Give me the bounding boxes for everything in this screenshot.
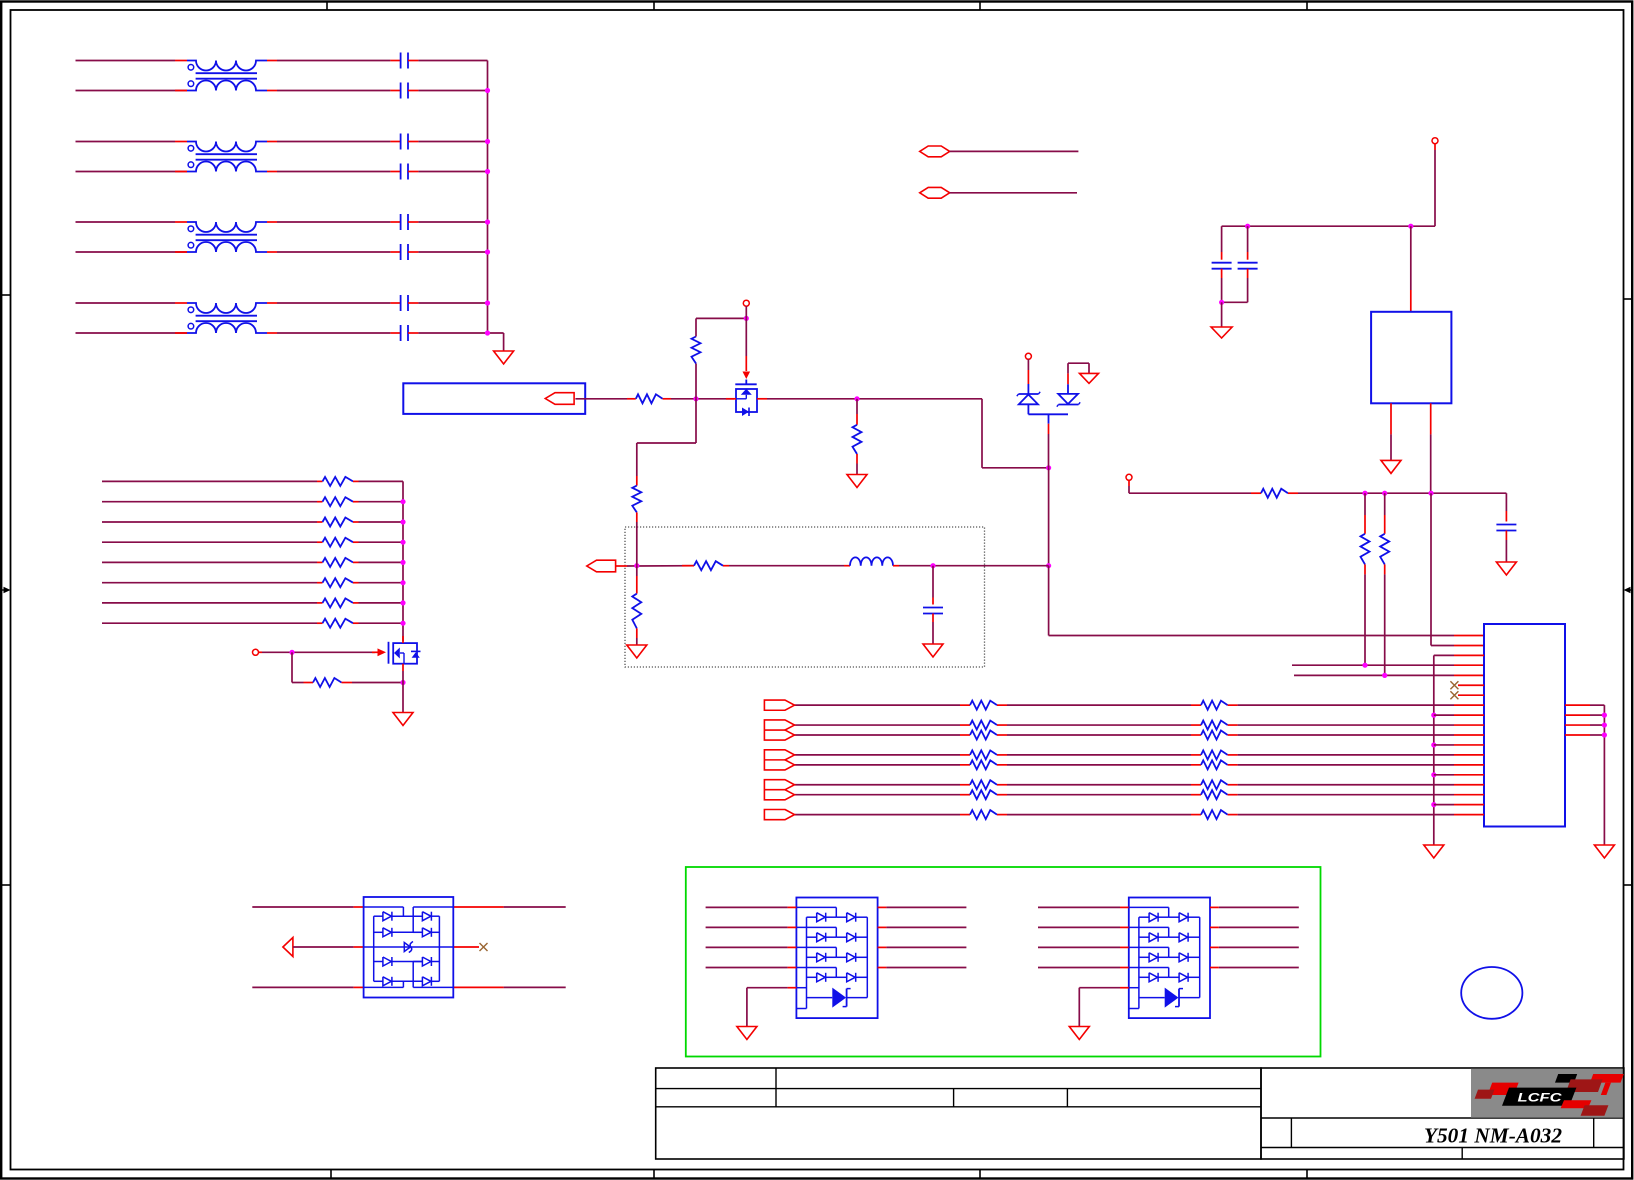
- svg-text:LCFC: LCFC: [1518, 1090, 1562, 1104]
- U5 output wire 2: [878, 926, 887, 928]
- common-mode choke L1: [187, 61, 267, 71]
- ground for D2: [1080, 373, 1099, 383]
- title block right divider c: [1461, 1148, 1463, 1160]
- resistor R16 row 7: [317, 602, 323, 604]
- wire net top of L4: [76, 302, 176, 304]
- connector arrow filter input: [587, 560, 616, 572]
- wire row 3 to U1: [1238, 734, 1454, 736]
- resistor Rb row 7: [1191, 794, 1201, 796]
- wire signal row 2: [795, 724, 961, 726]
- ESD diode array U5: [796, 898, 877, 1019]
- ground fb cap: [1496, 562, 1516, 575]
- common-mode choke L4: [187, 303, 267, 313]
- wire signal row 3: [795, 734, 961, 736]
- wire gate pin to MOSFET: [259, 651, 263, 653]
- ground U6: [1069, 1027, 1089, 1040]
- wire arrow to filter node: [616, 565, 627, 567]
- wire stub net pin4: [1292, 664, 1454, 666]
- wire cap to bus (bottom L4): [418, 332, 487, 334]
- resistor Ra row 7: [960, 794, 970, 796]
- U4 diode pair row c: [374, 961, 383, 963]
- resistor R14 row 5: [317, 561, 323, 563]
- wire row 5 to U1: [1238, 764, 1454, 766]
- resistor R12 row 3: [317, 521, 323, 523]
- ESD diode array U6: [1129, 898, 1210, 1019]
- border zone tick marks right: [1624, 298, 1632, 300]
- resistor R filter series: [682, 565, 694, 567]
- wire stub net pin5: [1294, 674, 1454, 676]
- capacitor C fb: [1505, 493, 1507, 511]
- resistor Ra row 2: [960, 724, 970, 726]
- capacitor C bypass1: [1221, 226, 1223, 252]
- wire row 2 mid: [1007, 724, 1191, 726]
- logo shape red right mid: [1601, 1083, 1611, 1095]
- resistor Rb row 4: [1191, 754, 1201, 756]
- pin circle diode node: [1025, 353, 1031, 359]
- U5 diode pair 2: [796, 926, 836, 928]
- wire net bottom of L3: [76, 251, 188, 253]
- ground filter cap: [923, 644, 943, 657]
- title block right row line 1: [1261, 1117, 1624, 1119]
- U5 input wire 1: [706, 906, 788, 908]
- wire row 7 to U1: [1238, 794, 1454, 796]
- U5 diode pair 3: [796, 946, 836, 948]
- wire resistor to inductor: [729, 565, 844, 567]
- resistor R divider top: [636, 476, 638, 486]
- wire row 8 mid: [1007, 814, 1191, 816]
- U6 left rail: [1138, 917, 1140, 1008]
- ground U3: [1381, 460, 1401, 473]
- logo shape red topright: [1590, 1074, 1624, 1083]
- resistor R10 row 1: [317, 480, 323, 482]
- wire ladder row 5: [102, 561, 317, 563]
- connector arrow row8: [764, 810, 794, 820]
- wire row 3 mid: [1007, 734, 1191, 736]
- resistor Ra row 8: [960, 814, 970, 816]
- vertical bus joining choke capacitors: [487, 61, 489, 334]
- ground divider: [627, 645, 647, 658]
- wire supply to U3: [1410, 226, 1412, 290]
- title block right divider b: [1593, 1118, 1595, 1148]
- logo shape darkred left: [1475, 1090, 1495, 1099]
- wire row 6 to U1: [1238, 784, 1454, 786]
- title block left divider c: [1066, 1089, 1068, 1107]
- resistor R fb series: [1251, 492, 1261, 494]
- wire U4 out mid no-connect: [453, 946, 479, 948]
- ground U5: [737, 1027, 757, 1040]
- wire U1 right pin top: [1565, 704, 1590, 706]
- U6 input wire 4: [1038, 967, 1120, 969]
- dotted function outline box: [625, 527, 985, 667]
- wire filter node down to R divider bottom: [636, 566, 638, 576]
- U6 output wire 3: [1210, 946, 1219, 948]
- wire row 4 mid: [1007, 754, 1191, 756]
- resistor Ra row 5: [960, 764, 970, 766]
- transistor Q1 nmos: [393, 643, 417, 664]
- wire cap to bus (top L4): [418, 302, 487, 304]
- wire cap to bus (top L1): [418, 60, 487, 62]
- IC U1 box: [1484, 624, 1565, 827]
- title block left row line 2: [656, 1106, 1261, 1108]
- capacitor CL2b: [390, 171, 400, 173]
- wire ladder row 1: [102, 480, 317, 482]
- U6 output wire 4: [1210, 967, 1219, 969]
- resistor R load to ground: [856, 399, 858, 414]
- U5 input wire 4: [706, 967, 788, 969]
- wire row 6 mid: [1007, 784, 1191, 786]
- wire signal row 4: [795, 754, 961, 756]
- gate arrowhead into Q1: [372, 651, 378, 653]
- ellipse marker: [1461, 967, 1522, 1019]
- border zone tick marks left: [1, 294, 10, 296]
- common-mode choke L2: [187, 142, 267, 152]
- wire output elbow down: [981, 399, 983, 468]
- wire pin to supply node: [745, 306, 747, 318]
- wire Q1 drain stub: [402, 636, 404, 643]
- wire U2 to series resistor: [575, 398, 627, 400]
- wire net top of L2: [76, 141, 176, 143]
- resistor Ra row 3: [960, 734, 970, 736]
- ground U1 bus: [1424, 845, 1444, 858]
- logo shape darkred bottom: [1581, 1105, 1609, 1116]
- wire caps common to ground: [1222, 301, 1248, 303]
- wire row 2 to U1: [1238, 724, 1454, 726]
- wire cap to bus (top L2): [418, 141, 487, 143]
- capacitor C bypass2: [1247, 226, 1249, 252]
- resistor Ra row 1: [960, 704, 970, 706]
- wire signal row 7: [795, 794, 961, 796]
- wire D2 anode to ground elbow: [1067, 373, 1069, 384]
- ladder bus vertical: [402, 481, 404, 641]
- U5 diode pair 4: [796, 967, 836, 969]
- U1 no-connect pin7: [1458, 694, 1484, 696]
- wire from L3 bottom to capacitor: [267, 251, 277, 253]
- wire cap to bus (bottom L3): [418, 251, 487, 253]
- wire gate node up to pullup resistor: [695, 364, 697, 399]
- wire row 4 to U1: [1238, 754, 1454, 756]
- inductor L filter: [844, 565, 850, 567]
- resistor Rb row 5: [1191, 764, 1201, 766]
- ground for Q1 source: [393, 713, 413, 726]
- wire U1 gnd pin 3: [1431, 802, 1436, 807]
- wire from L4 bottom to capacitor: [267, 332, 277, 334]
- wire ladder row 2: [102, 501, 317, 503]
- capacitor CL1b: [390, 90, 400, 92]
- wire Q2 drain out: [757, 398, 767, 400]
- wire from L1 top to capacitor: [267, 60, 277, 62]
- U6 ground wire: [1129, 987, 1139, 989]
- connector arrow inside U2: [545, 393, 574, 405]
- junction dots ladder bus: [400, 499, 405, 504]
- U4 zener center: [404, 943, 410, 952]
- logo shape darkred right: [1566, 1079, 1603, 1092]
- resistor R series gate: [627, 398, 636, 400]
- resistor R13 row 4: [317, 541, 323, 543]
- wire cap to bus (bottom L1): [418, 90, 487, 92]
- capacitor CL1a: [390, 60, 400, 62]
- wire long net to U1 pin1: [1049, 635, 1454, 637]
- U6 diode pair 4: [1129, 967, 1169, 969]
- wire gate node down to divider: [695, 399, 697, 443]
- logo shape red left: [1488, 1083, 1519, 1095]
- wire U4 out top: [453, 906, 503, 908]
- connector arrow U4 mid: [283, 938, 293, 957]
- wire signal row 5: [795, 764, 961, 766]
- title block right row line 2: [1261, 1147, 1624, 1149]
- wire U4 in bottom: [252, 986, 353, 988]
- connector arrow rows6-7: [764, 780, 794, 800]
- wire diode common node down: [1028, 413, 1068, 415]
- U5 output wire 3: [878, 946, 887, 948]
- wire U1 right pin: [1565, 724, 1590, 726]
- wire net bottom of L4: [76, 332, 188, 334]
- wire U1 gnd pin 2: [1431, 772, 1436, 777]
- resistor Rb row 3: [1191, 734, 1201, 736]
- border center arrow right: [1629, 589, 1632, 591]
- resistor R11 row 2: [317, 501, 323, 503]
- border zone tick marks top: [326, 2, 328, 10]
- U6 right rail: [1199, 917, 1201, 997]
- arrowhead into Q2: [743, 372, 751, 380]
- wire Q1 source to ground net: [402, 664, 404, 671]
- wire from L4 top to capacitor: [267, 302, 277, 304]
- ground for R load: [847, 475, 867, 488]
- wire signal row 1: [795, 704, 961, 706]
- wire U3 out down to U1 pin2: [1430, 493, 1432, 645]
- junction dots on choke bus: [485, 88, 490, 93]
- green group outline box: [686, 867, 1321, 1057]
- title block left divider a: [775, 1068, 777, 1107]
- title block left divider b: [953, 1089, 955, 1107]
- capacitor CL4b: [390, 332, 400, 334]
- wire supply down: [1434, 144, 1436, 150]
- supply pin circle top right: [1432, 138, 1438, 144]
- wire net top of L3: [76, 221, 176, 223]
- wire U4 in top: [252, 906, 353, 908]
- wire fb net right: [1298, 492, 1506, 494]
- wire ladder row 4: [102, 541, 317, 543]
- wire U1 right pin: [1565, 714, 1590, 716]
- resistor Rb row 8: [1191, 814, 1201, 816]
- wire node down to filter net: [1048, 468, 1050, 566]
- wire row 1 to U1: [1238, 704, 1454, 706]
- U5 diode pair 1: [796, 906, 836, 908]
- common-mode choke L3: [187, 222, 267, 232]
- wire pullup to supply node: [695, 318, 697, 336]
- U6 output wire 2: [1210, 926, 1219, 928]
- resistor Rb row 1: [1191, 704, 1201, 706]
- wire row 5 mid: [1007, 764, 1191, 766]
- U5 input wire 3: [706, 946, 788, 948]
- U4 diode pair row a: [374, 915, 383, 917]
- wire pulldown to source node: [352, 682, 403, 684]
- wire ladder row 3: [102, 521, 317, 523]
- capacitor C filter: [932, 566, 934, 598]
- title block right outline: [1261, 1068, 1624, 1159]
- border center arrow left: [1, 589, 6, 591]
- logo shape red bottom: [1561, 1100, 1592, 1108]
- wire net A: [950, 150, 1079, 152]
- U5 output wire 4: [878, 967, 887, 969]
- U4 diode pair row d: [374, 980, 383, 982]
- wire ladder row 8: [102, 622, 317, 624]
- wire resistor to gate node: [671, 398, 734, 400]
- capacitor CL3a: [390, 221, 400, 223]
- connector arrow row1: [764, 700, 794, 710]
- wire signal row 8: [795, 814, 961, 816]
- wire net bottom of L1: [76, 90, 188, 92]
- diode D2 tvs: [1058, 394, 1078, 404]
- resistor R sense2: [1384, 493, 1386, 515]
- U6 diode pair 1: [1129, 906, 1169, 908]
- wire U1 gnd pin 0: [1431, 713, 1436, 718]
- resistor Rb row 2: [1191, 724, 1201, 726]
- border zone tick marks bottom: [330, 1170, 332, 1179]
- wire inductor to cap node: [899, 565, 1049, 567]
- ESD diode array U4: [364, 897, 454, 998]
- wire supply horizontal: [1222, 225, 1435, 227]
- diode D1 tvs: [1019, 393, 1039, 395]
- capacitor CL2a: [390, 141, 400, 143]
- title block left row line 1: [656, 1088, 1261, 1090]
- resistor Ra row 6: [960, 784, 970, 786]
- capacitor CL3b: [390, 251, 400, 253]
- U6 zener: [1139, 997, 1165, 999]
- ground U1 right bus: [1594, 845, 1614, 858]
- wire cap to bus (bottom L2): [418, 171, 487, 173]
- wire net B: [950, 192, 1077, 194]
- wire U4 in mid: [293, 946, 354, 948]
- resistor R pullup: [692, 337, 701, 364]
- logo shape black main: [1502, 1088, 1576, 1106]
- U6 diode pair 2: [1129, 926, 1169, 928]
- wire bus to ground: [488, 332, 504, 334]
- wire into Q2 source: [726, 398, 736, 400]
- connector hexagon net A: [920, 146, 950, 157]
- resistor R sense1: [1364, 493, 1366, 515]
- wire ladder row 6: [102, 582, 317, 584]
- wire from L2 bottom to capacitor: [267, 171, 277, 173]
- wire ladder row 7: [102, 602, 317, 604]
- gate input pin circle: [253, 649, 259, 655]
- logo shape black top: [1555, 1074, 1577, 1083]
- wire net bottom of L2: [76, 171, 188, 173]
- wire U4 out bottom: [453, 986, 503, 988]
- wire cap to bus (top L3): [418, 221, 487, 223]
- resistor Ra row 4: [960, 754, 970, 756]
- wire from L2 top to capacitor: [267, 141, 277, 143]
- resistor R17 row 8: [317, 622, 323, 624]
- wire fb pin down and right: [1128, 480, 1130, 486]
- wire signal row 6: [795, 784, 961, 786]
- pin circle fb: [1126, 474, 1132, 480]
- wire row 8 to U1: [1238, 814, 1454, 816]
- resistor R gate pulldown: [304, 682, 314, 684]
- U6 input wire 3: [1038, 946, 1120, 948]
- svg-text:Y501 NM-A032: Y501 NM-A032: [1424, 1124, 1563, 1148]
- ground for choke bus: [494, 351, 514, 364]
- wire net top of L1: [76, 60, 176, 62]
- U1 no-connect pin6: [1458, 684, 1484, 686]
- U5 left rail: [806, 917, 808, 1008]
- wire divider to filter node: [636, 522, 638, 566]
- wire gate junction down to R gate pulldown: [291, 652, 293, 682]
- connector hexagon net B: [920, 187, 950, 198]
- U5 right rail: [866, 917, 868, 997]
- wire supply node down to Q2: [745, 318, 747, 356]
- wire U3 pin gnd: [1390, 403, 1392, 434]
- transistor Q2 pmos: [745, 380, 747, 385]
- U6 output wire 1: [1210, 906, 1219, 908]
- resistor Rb row 6: [1191, 784, 1201, 786]
- ground bypass caps: [1211, 327, 1232, 338]
- wire U1 right pin: [1565, 734, 1590, 736]
- wire row 7 mid: [1007, 794, 1191, 796]
- connector arrow rows2-3: [764, 720, 794, 740]
- U5 input wire 2: [706, 926, 788, 928]
- wire U1 gnd pin 1: [1431, 742, 1436, 747]
- supply pin circle: [743, 300, 749, 306]
- U4 diode pair row b: [374, 931, 383, 933]
- title block left outline: [656, 1068, 1261, 1159]
- U6 diode pair 3: [1129, 946, 1169, 948]
- title block right divider a: [1290, 1118, 1292, 1148]
- wire U3 out pin down: [1430, 403, 1432, 434]
- component box U2: [403, 383, 585, 414]
- capacitor CL4a: [390, 302, 400, 304]
- wire row 1 mid: [1007, 704, 1191, 706]
- U5 zener: [807, 997, 833, 999]
- U5 output wire 1: [878, 906, 887, 908]
- component box U3: [1371, 312, 1451, 404]
- wire pin to diode D1: [1027, 359, 1029, 370]
- resistor R15 row 6: [317, 582, 323, 584]
- wire from L1 bottom to capacitor: [267, 90, 277, 92]
- connector arrow rows4-5: [764, 750, 794, 770]
- U5 ground wire: [796, 987, 806, 989]
- U1 ground bus vertical: [1433, 655, 1435, 845]
- wire from L3 top to capacitor: [267, 221, 277, 223]
- resistor R divider bottom: [636, 576, 638, 594]
- logo LCFC panel: [1471, 1069, 1623, 1118]
- U6 input wire 2: [1038, 926, 1120, 928]
- U6 input wire 1: [1038, 906, 1120, 908]
